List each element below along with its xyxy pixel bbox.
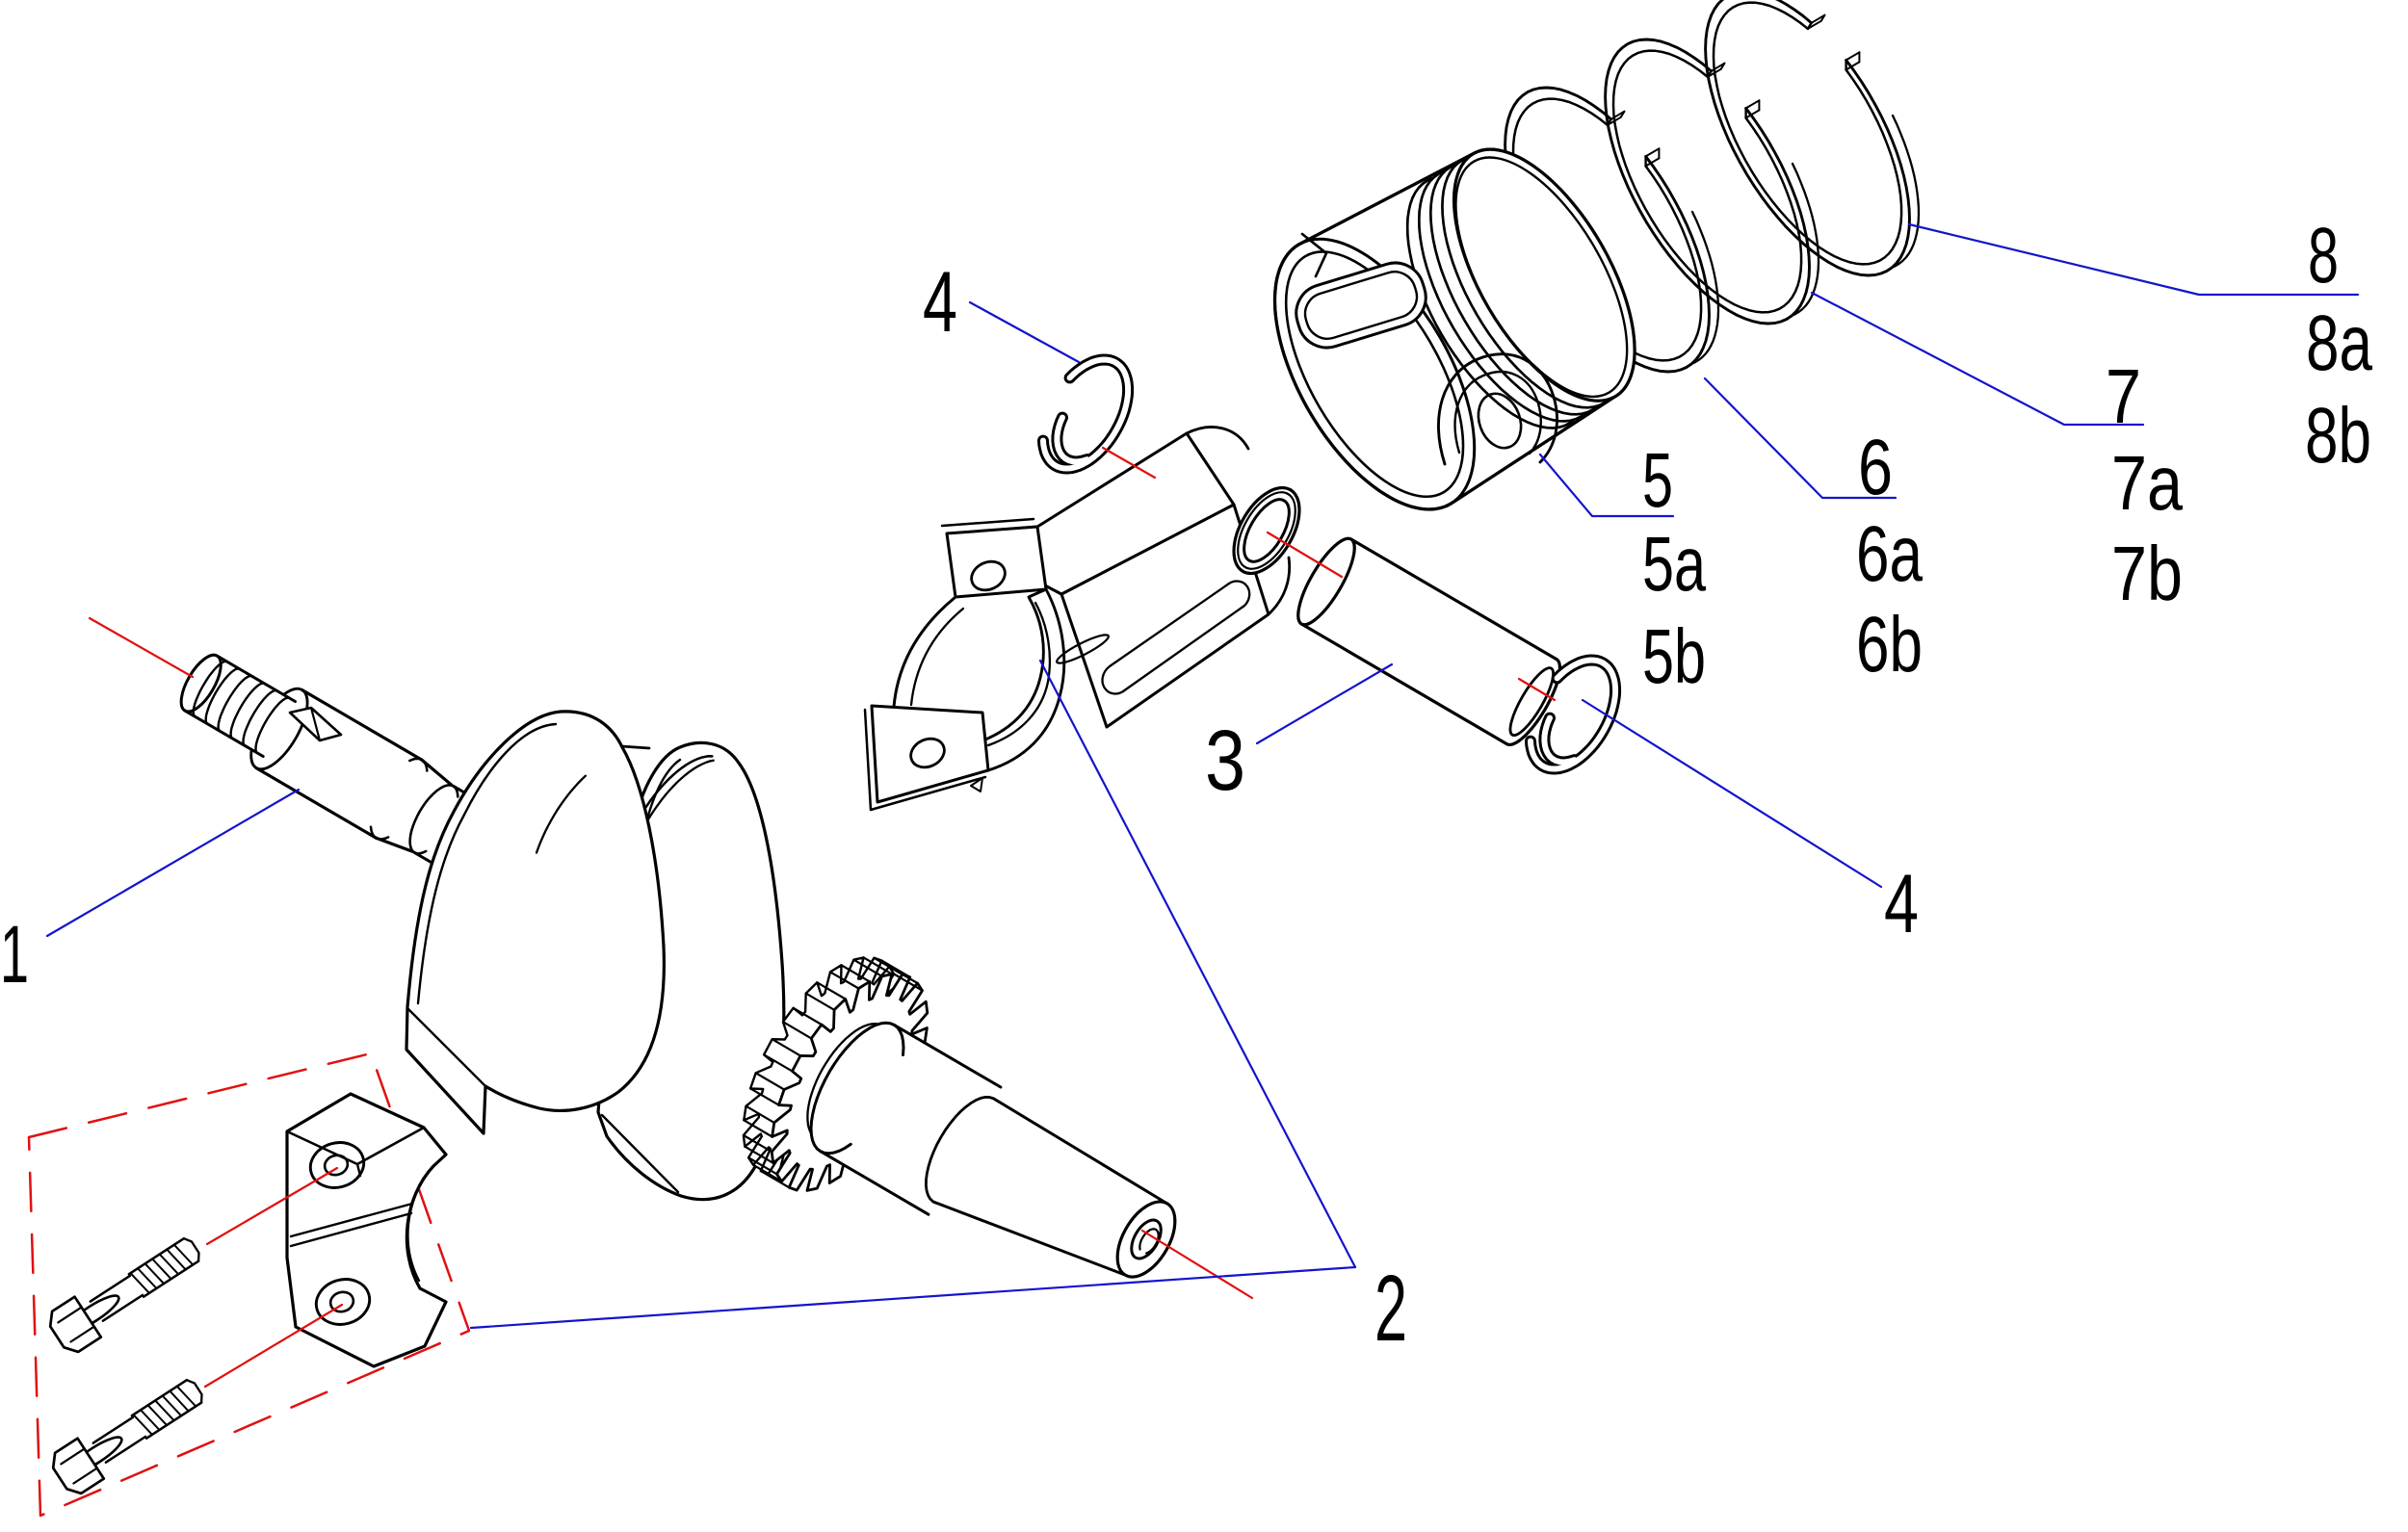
- svg-text:8a: 8a: [2306, 299, 2372, 387]
- bolt 2b: [62, 1436, 120, 1481]
- svg-text:5: 5: [1642, 437, 1673, 523]
- svg-text:4: 4: [923, 253, 957, 350]
- piston ring 8: [1706, 0, 1910, 275]
- leader 4 bottom: [1583, 700, 1881, 887]
- crankshaft 1: [240, 680, 318, 777]
- crank web 1: [406, 712, 664, 1133]
- bolt 2a: [59, 1294, 118, 1339]
- piston ring 6: [1505, 88, 1710, 372]
- red assembly line bolt1: [207, 1168, 337, 1244]
- svg-text:5a: 5a: [1642, 521, 1706, 607]
- svg-text:7: 7: [2106, 353, 2141, 439]
- svg-text:8b: 8b: [2305, 392, 2371, 480]
- svg-text:1: 1: [0, 909, 29, 1000]
- piston pin 3: [1301, 539, 1557, 744]
- svg-text:3: 3: [1205, 712, 1245, 808]
- crank tail: [821, 1025, 1003, 1214]
- centerline crank nose: [90, 618, 193, 677]
- leader 5: [1540, 454, 1673, 516]
- leader 2b: [471, 1267, 1355, 1328]
- svg-text:7a: 7a: [2111, 440, 2183, 526]
- svg-text:7b: 7b: [2111, 531, 2183, 616]
- piston ring 7: [1606, 39, 1810, 324]
- svg-text:6b: 6b: [1856, 601, 1923, 688]
- leader 4 top: [970, 302, 1079, 362]
- circlip 4 lower: [1531, 661, 1615, 769]
- leader 2a: [1040, 661, 1355, 1267]
- centerline rod-pin: [1268, 532, 1342, 577]
- red dashed detail box: [29, 1053, 469, 1516]
- centerline crank tip: [1142, 1231, 1252, 1298]
- leader 7: [1812, 293, 2143, 425]
- svg-text:6a: 6a: [1856, 510, 1923, 598]
- svg-text:2: 2: [1374, 1256, 1407, 1361]
- leader 1: [47, 790, 299, 936]
- crank web 2: [598, 742, 784, 1199]
- leader 3: [1257, 664, 1392, 743]
- leader 8: [1909, 224, 2358, 295]
- svg-text:8: 8: [2308, 212, 2339, 299]
- svg-text:5b: 5b: [1642, 613, 1706, 699]
- svg-text:4: 4: [1884, 858, 1919, 950]
- circlip 4 upper: [1043, 360, 1128, 469]
- red assembly line bolt2: [205, 1305, 342, 1387]
- bearing cap 2: [287, 1094, 446, 1366]
- connecting rod 5: [1061, 505, 1269, 727]
- centerline circlip-rod: [1103, 448, 1155, 478]
- centerline pin-circlip: [1519, 679, 1555, 700]
- leader 6: [1705, 378, 1896, 498]
- timing gear: [712, 933, 930, 1199]
- svg-text:6: 6: [1858, 424, 1893, 511]
